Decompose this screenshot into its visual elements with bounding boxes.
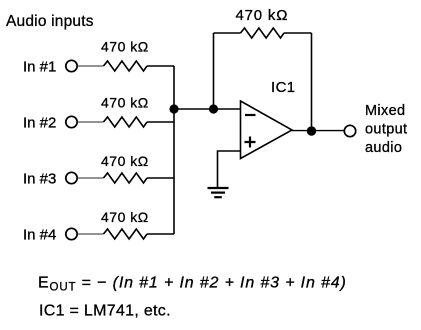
svg-text:In #2: In #2 [23,115,56,132]
svg-text:In #4: In #4 [23,227,56,244]
svg-text:In #3: In #3 [23,171,56,188]
svg-text:470 kΩ: 470 kΩ [101,95,149,111]
wire R3 to bus [147,177,174,179]
svg-text:output: output [365,122,407,138]
ground [208,188,229,197]
op-amp U1 triangle [241,101,293,159]
wire feedback top left [214,32,241,34]
wire R2 to bus [147,121,174,123]
wire In#3 to R3 [78,177,104,179]
wire In#1 to R1 [78,65,104,67]
svg-text:Mixed: Mixed [365,103,405,119]
svg-text:470 kΩ: 470 kΩ [101,153,149,169]
wire In#4 to R4 [78,233,104,235]
svg-text:audio: audio [365,140,402,156]
junction feedback/input [209,104,218,113]
wire feedback left vertical [213,33,215,109]
terminal In #1 [66,60,77,71]
wire feedback top right [284,32,312,34]
junction bus/input [169,104,178,113]
svg-text:470 kΩ: 470 kΩ [101,209,149,225]
wire summing bus vertical [173,66,175,234]
resistor R1 [104,61,147,71]
svg-text:EOUT = − (In #1 + In #2 + In #: EOUT = − (In #1 + In #2 + In #3 + In #4) [38,275,347,294]
op-amp minus sign [245,114,256,116]
wire R1 to bus [147,65,174,67]
terminal mixed output [344,125,355,136]
wire feedback right vertical [311,33,313,131]
svg-text:470 kΩ: 470 kΩ [236,7,289,24]
svg-text:470 kΩ: 470 kΩ [101,39,149,55]
wire non-inverting input [218,151,241,188]
wire op-amp output [292,130,344,132]
svg-text:IC1: IC1 [271,79,296,96]
terminal In #4 [66,228,77,239]
terminal In #2 [66,116,77,127]
svg-text:In #1: In #1 [23,59,56,76]
wire In#2 to R2 [78,121,104,123]
resistor R2 [104,117,147,127]
terminal In #3 [66,172,77,183]
svg-text:IC1 = LM741, etc.: IC1 = LM741, etc. [39,303,171,320]
resistor R4 [104,229,147,239]
wire bus to op-amp inverting input [174,108,241,110]
resistor R3 [104,173,147,183]
resistor R5 feedback [241,28,285,38]
svg-text:Audio inputs: Audio inputs [6,13,94,30]
op-amp plus sign [245,137,256,148]
junction output/feedback [307,126,316,135]
wire R4 to bus [147,233,174,235]
